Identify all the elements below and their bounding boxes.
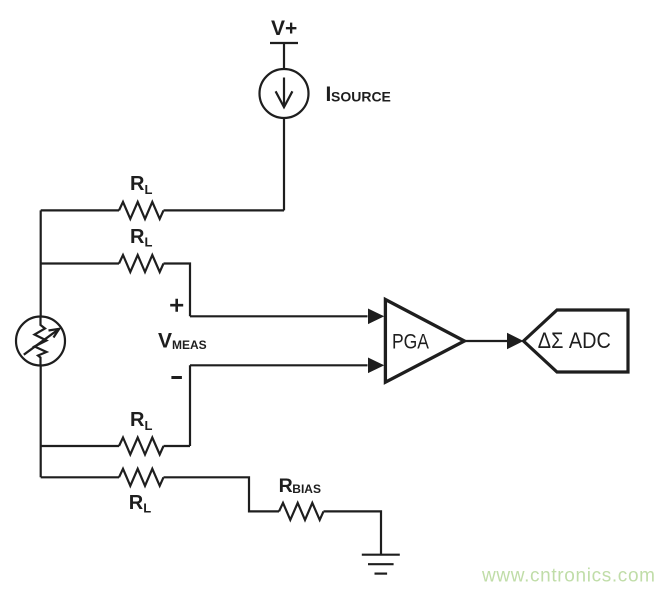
wire RL2 to plus node [164,264,191,317]
resistor RBIAS [279,503,324,520]
svg-text:ΔΣ ADC: ΔΣ ADC [538,328,611,353]
node plus [170,299,183,312]
resistor RL4 [119,469,164,486]
wire minus node down to RL3 [189,365,191,446]
svg-text:R: R [130,409,145,431]
svg-text:V+: V+ [271,17,297,40]
left rail wire top section [40,210,42,316]
wire V+ to current source [283,43,285,69]
label RL1 [130,173,153,197]
wire minus input to PGA [190,364,368,366]
svg-text:BIAS: BIAS [292,482,321,496]
svg-text:L: L [145,234,153,249]
wire current source to top RL rail [283,118,285,210]
svg-text:R: R [129,492,144,514]
resistor RL2 [119,255,164,272]
label RL3 [130,409,153,433]
label RBIAS [279,475,321,497]
wire RL4 to RBIAS [164,477,280,511]
left rail wire bottom section [40,366,42,478]
wire left rail to RL3 [41,445,119,447]
label RL4 [129,492,152,516]
label RL2 [130,226,153,250]
label ISOURCE [326,83,391,106]
svg-text:SOURCE: SOURCE [331,89,391,105]
svg-text:R: R [130,226,145,248]
arrowhead ADC input [507,333,524,349]
arrowhead minus input [368,358,384,374]
wire RL3 to minus branch [164,445,191,447]
wire plus input to PGA [190,315,368,317]
wire V+ terminal bar [270,42,298,44]
arrowhead plus input [368,309,384,325]
RTD sensor [16,317,65,366]
label VMEAS [158,330,207,353]
wire left rail to RL4 [41,476,119,478]
svg-text:L: L [145,182,153,197]
resistor RL3 [119,438,164,455]
current source ISOURCE [260,69,309,118]
svg-text:L: L [145,418,153,433]
resistor RL1 [119,202,164,219]
ADC block [524,310,629,372]
svg-text:R: R [130,173,145,195]
wire left rail to RL2 [41,262,119,264]
op-amp PGA [385,300,464,383]
svg-text:PGA: PGA [392,330,429,353]
svg-text:V: V [158,330,172,353]
node minus [171,376,182,379]
svg-text:R: R [279,475,293,497]
wire left rail to RL1 [41,209,119,211]
svg-text:MEAS: MEAS [172,338,207,352]
svg-text:L: L [143,501,151,516]
ground [362,555,400,574]
wire RBIAS to ground [324,511,382,554]
wire RL1 to current source branch [164,209,285,211]
svg-text:www.cntronics.com: www.cntronics.com [481,566,656,587]
wire PGA output to ADC [464,340,507,342]
